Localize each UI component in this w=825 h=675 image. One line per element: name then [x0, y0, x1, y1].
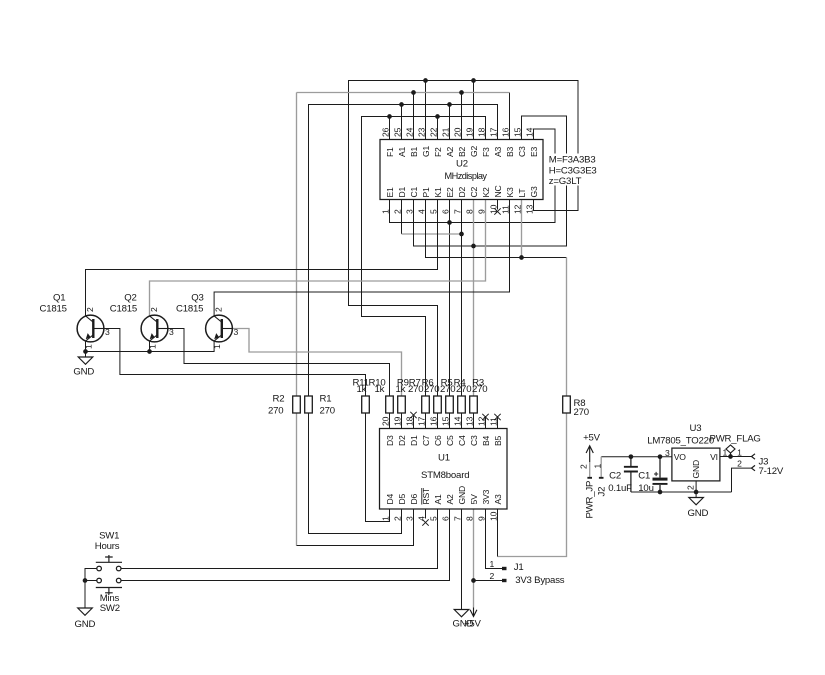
ground near Q1	[78, 357, 93, 364]
wire Q3 base to R9	[232, 329, 402, 397]
junction C2	[471, 244, 476, 249]
svg-text:R2: R2	[273, 394, 285, 405]
regulator U3 LM7805 body	[672, 448, 720, 481]
svg-text:RST: RST	[421, 487, 431, 505]
svg-text:10u: 10u	[638, 483, 653, 494]
svg-text:D6: D6	[409, 493, 419, 504]
resistor R11	[362, 396, 370, 413]
svg-text:11: 11	[500, 205, 510, 214]
svg-text:PWR_JP: PWR_JP	[585, 481, 596, 519]
wire Q2 base to R10	[167, 329, 390, 397]
svg-text:2: 2	[85, 307, 95, 312]
wire R6 bottom to U1 pin 16	[437, 413, 439, 429]
svg-text:1: 1	[380, 516, 390, 521]
svg-text:E1: E1	[385, 187, 395, 198]
junction E2	[447, 220, 452, 225]
svg-text:270: 270	[456, 384, 471, 395]
svg-text:17: 17	[416, 416, 426, 426]
wire net A from R1 bottom to U1 pin D5	[309, 413, 402, 534]
svg-text:7: 7	[452, 209, 462, 214]
transistor Q3	[206, 315, 233, 342]
wire J2 pin 1 to +5V rail	[600, 457, 602, 478]
svg-text:19: 19	[464, 127, 474, 137]
svg-text:LM7805_TO220: LM7805_TO220	[647, 436, 714, 447]
svg-text:C1: C1	[638, 471, 650, 482]
svg-text:D5: D5	[397, 493, 407, 504]
svg-text:2: 2	[685, 485, 695, 490]
IC U1 STM8board body	[380, 429, 508, 510]
node legend notes	[547, 154, 599, 186]
svg-text:20: 20	[452, 127, 462, 137]
svg-text:1: 1	[490, 559, 495, 569]
resistor R1	[305, 396, 313, 413]
wire F1 pin stub	[389, 117, 391, 140]
junction A2	[447, 102, 452, 107]
junction G1	[423, 78, 428, 83]
svg-text:3: 3	[234, 327, 239, 337]
wire +5V rail to U3 VO	[601, 456, 672, 458]
svg-text:F2: F2	[433, 147, 443, 157]
svg-text:9: 9	[476, 209, 486, 214]
wire U3 GND pin	[695, 481, 697, 498]
wire Q1 base to R11	[103, 329, 366, 397]
wire R8 bottom to U1 pin A3	[498, 413, 567, 557]
svg-text:C1815: C1815	[40, 304, 67, 315]
svg-text:NC: NC	[493, 185, 503, 197]
svg-text:5: 5	[428, 516, 438, 521]
svg-text:A1: A1	[397, 146, 407, 157]
svg-text:3V3 Bypass: 3V3 Bypass	[515, 575, 565, 586]
wire U1 3V3 to J1 pin 1	[486, 510, 503, 569]
svg-text:B4: B4	[481, 435, 491, 446]
wire SW2 common stub	[85, 580, 97, 582]
junction U3 GND	[694, 490, 699, 495]
wire Q2 emitter	[149, 341, 151, 352]
wire net B jog to U1 pin D6	[297, 510, 414, 546]
junction Q1 emitter	[83, 349, 88, 354]
ground under switches	[78, 608, 93, 615]
svg-text:2: 2	[392, 516, 402, 521]
capacitor C2	[624, 457, 638, 492]
svg-text:11: 11	[488, 417, 498, 426]
svg-text:A3: A3	[493, 494, 503, 505]
wire G1 pin stub	[425, 81, 427, 140]
wire GND stub Q1	[85, 352, 87, 358]
wire net B below R2	[296, 413, 298, 546]
svg-text:J2: J2	[596, 487, 607, 497]
svg-text:C6: C6	[433, 435, 443, 446]
wire net B top rail	[297, 92, 510, 94]
wire net A (A3 top rail, left vertical to R1)	[309, 105, 498, 397]
svg-text:10: 10	[488, 204, 498, 214]
power symbol +5V down arrow	[470, 608, 477, 617]
svg-text:1k: 1k	[396, 384, 406, 395]
svg-text:K2: K2	[481, 187, 491, 198]
svg-text:3: 3	[404, 209, 414, 214]
svg-text:K1: K1	[433, 187, 443, 198]
wire ground rail power section	[631, 491, 732, 493]
switch SW2 Mins	[96, 578, 122, 595]
svg-text:B5: B5	[493, 435, 503, 446]
wire F2 pin stub	[437, 117, 439, 140]
svg-text:GND: GND	[73, 367, 94, 378]
no-connect X on U1 pin 11	[494, 414, 500, 420]
svg-text:3: 3	[169, 327, 174, 337]
svg-text:P1: P1	[421, 187, 431, 198]
svg-text:A2: A2	[445, 146, 455, 157]
svg-text:U1: U1	[438, 453, 450, 464]
wire J3 pin 2 to ground rail	[732, 468, 752, 492]
svg-text:PWR_FLAG: PWR_FLAG	[710, 434, 761, 445]
svg-text:25: 25	[392, 127, 402, 137]
svg-text:14: 14	[524, 127, 534, 137]
wire R9 bottom to U1 pin 19	[401, 413, 403, 429]
svg-text:Q1: Q1	[53, 293, 65, 304]
wire R7 bottom to U1 pin 17	[425, 413, 427, 429]
svg-text:2: 2	[578, 464, 588, 469]
svg-text:D3: D3	[385, 435, 395, 446]
no-connect X on U1 pin 12	[482, 414, 488, 420]
svg-text:1: 1	[592, 464, 602, 469]
svg-text:18: 18	[476, 127, 486, 137]
svg-text:2: 2	[737, 459, 742, 469]
wire net B (B3 pin stub)	[509, 93, 511, 140]
svg-text:14: 14	[452, 416, 462, 426]
junction D2	[459, 232, 464, 237]
junction B1	[411, 90, 416, 95]
svg-text:1: 1	[83, 344, 93, 349]
svg-text:B3: B3	[505, 146, 515, 157]
svg-text:C7: C7	[421, 435, 431, 446]
wire net K1 to Q1 collector	[86, 200, 438, 317]
junction Q2 emitter	[147, 349, 152, 354]
svg-text:GND: GND	[688, 508, 709, 519]
wire R5 bottom to U1 pin 15	[449, 413, 451, 429]
svg-text:8: 8	[464, 516, 474, 521]
svg-text:MHzdisplay: MHzdisplay	[445, 171, 488, 181]
IC U2 MHzdisplay body	[380, 140, 543, 200]
transistor Q2	[141, 315, 168, 342]
svg-text:3: 3	[105, 327, 110, 337]
svg-text:D4: D4	[385, 493, 395, 504]
svg-text:U3: U3	[690, 423, 702, 434]
wire J2 pin 2 to +5V	[589, 462, 591, 478]
svg-text:22: 22	[428, 127, 438, 137]
svg-text:+5V: +5V	[464, 619, 482, 630]
svg-text:VI: VI	[710, 452, 718, 462]
junction A1	[399, 102, 404, 107]
resistor R9	[398, 396, 406, 413]
svg-text:SW1: SW1	[99, 531, 119, 542]
junction SW commons	[83, 578, 88, 583]
junction C1 bottom	[658, 490, 663, 495]
svg-text:20: 20	[380, 416, 390, 426]
svg-text:16: 16	[500, 127, 510, 137]
svg-text:GND: GND	[457, 486, 467, 505]
svg-text:G3: G3	[529, 186, 539, 197]
svg-text:J1: J1	[514, 562, 524, 573]
svg-text:Q2: Q2	[124, 293, 136, 304]
junction LT	[519, 255, 524, 260]
resistor R3	[470, 396, 478, 413]
svg-text:3: 3	[404, 516, 414, 521]
svg-text:5V: 5V	[469, 494, 479, 505]
svg-text:1k: 1k	[357, 384, 367, 395]
no-connect X on U1 pin 4 RST	[422, 519, 428, 525]
svg-text:4: 4	[416, 516, 426, 521]
svg-text:C2: C2	[609, 471, 621, 482]
svg-text:GND: GND	[691, 460, 701, 479]
switch SW1 Hours	[96, 555, 122, 571]
svg-text:6: 6	[440, 516, 450, 521]
svg-text:E3: E3	[529, 146, 539, 157]
svg-text:270: 270	[472, 384, 487, 395]
wire 5V to J1 pin 2	[474, 580, 503, 582]
ground U3	[689, 498, 704, 505]
svg-text:26: 26	[380, 127, 390, 137]
svg-text:12: 12	[476, 416, 486, 426]
wire net C (C1 staircase to C3)	[414, 116, 567, 246]
svg-text:VO: VO	[674, 452, 687, 462]
svg-text:5: 5	[428, 209, 438, 214]
wire net P (P1 staircase)	[426, 200, 567, 258]
svg-text:4: 4	[416, 209, 426, 214]
wire emitter ground rail	[86, 341, 215, 352]
svg-text:1: 1	[212, 344, 222, 349]
svg-text:C5: C5	[445, 435, 455, 446]
svg-text:U2: U2	[456, 159, 468, 170]
wire B2 pin stub	[461, 93, 463, 140]
svg-text:10: 10	[488, 511, 498, 521]
svg-text:GND: GND	[75, 619, 96, 630]
wire G2 pin stub	[473, 81, 475, 140]
svg-text:19: 19	[392, 416, 402, 426]
svg-text:R1: R1	[320, 394, 332, 405]
wire NC pin stub	[497, 200, 499, 210]
resistor R2	[293, 396, 301, 413]
wire net B left vertical to R2	[296, 93, 298, 397]
connector J1	[502, 567, 507, 570]
svg-text:24: 24	[404, 127, 414, 137]
svg-text:M=F3A3B3: M=F3A3B3	[549, 155, 596, 166]
junction G2	[471, 78, 476, 83]
wire U1 5V pin descent	[473, 510, 475, 608]
svg-text:K3: K3	[505, 187, 515, 198]
resistor R8	[563, 396, 571, 413]
junction F2	[435, 114, 440, 119]
svg-text:270: 270	[424, 384, 439, 395]
svg-text:12: 12	[512, 204, 522, 214]
wire net P down to R8	[566, 258, 568, 397]
wire net C column C2/R3	[473, 200, 475, 397]
junction PWR_FLAG	[728, 454, 733, 459]
wire D1 descent	[401, 200, 403, 235]
wire R3 bottom to U1 pin 13	[473, 413, 475, 429]
wire U1 A2 to SW2	[121, 510, 450, 581]
svg-text:D1: D1	[397, 186, 407, 197]
svg-text:16: 16	[428, 416, 438, 426]
wire net K3 to Q3 collector	[214, 200, 509, 317]
svg-text:E2: E2	[445, 187, 455, 198]
svg-text:3V3: 3V3	[481, 489, 491, 504]
svg-text:D1: D1	[409, 435, 419, 446]
svg-text:0.1uF: 0.1uF	[608, 483, 632, 494]
svg-text:G2: G2	[469, 146, 479, 157]
svg-text:STM8board: STM8board	[421, 470, 469, 481]
svg-text:SW2: SW2	[100, 603, 120, 614]
junction C2 top	[629, 454, 634, 459]
resistor R4	[458, 396, 466, 413]
wire U3 VI to J3 pin 1	[720, 456, 752, 458]
wire U1 GND pin descent	[461, 510, 463, 610]
svg-text:270: 270	[574, 407, 589, 418]
no-connect X on U2 pin 10	[494, 208, 500, 214]
svg-text:2: 2	[490, 571, 495, 581]
wire B1 pin stub	[413, 93, 415, 140]
resistor R6	[434, 396, 442, 413]
connector J3	[752, 454, 756, 459]
wire U1 pin 12 stub	[485, 416, 487, 429]
svg-text:C1815: C1815	[176, 304, 203, 315]
wire R4 bottom to U1 pin 14	[461, 413, 463, 429]
junction C1 top	[658, 454, 663, 459]
svg-text:C2: C2	[469, 186, 479, 197]
svg-text:A3: A3	[493, 146, 503, 157]
svg-text:C4: C4	[457, 435, 467, 446]
no-connect X on U1 pin 18	[410, 412, 416, 418]
wire net F (F3 top rail, left vertical to R7)	[362, 117, 486, 397]
wire net K2 to Q2 collector	[150, 200, 486, 317]
wire A3 pin descent	[497, 510, 499, 557]
svg-text:13: 13	[464, 416, 474, 426]
svg-text:B1: B1	[409, 146, 419, 157]
wire U1 pin 18 stub	[413, 416, 415, 429]
wire U1 A1 to SW1	[121, 510, 438, 569]
svg-text:18: 18	[404, 416, 414, 426]
capacitor C1 (polarized)	[653, 457, 668, 492]
wire A2 pin stub	[449, 105, 451, 140]
svg-text:1: 1	[380, 209, 390, 214]
svg-text:G1: G1	[421, 146, 431, 157]
wire LT pin descent	[521, 200, 523, 258]
svg-text:8: 8	[464, 209, 474, 214]
wire R11 bottom to U1 pin D4	[366, 413, 390, 522]
svg-text:9: 9	[476, 516, 486, 521]
svg-text:2: 2	[149, 307, 159, 312]
svg-text:1k: 1k	[375, 384, 385, 395]
svg-text:2: 2	[392, 209, 402, 214]
ground under U1	[454, 610, 469, 617]
resistor R7	[422, 396, 430, 413]
junction B2	[459, 90, 464, 95]
svg-text:C3: C3	[517, 146, 527, 157]
svg-text:LT: LT	[517, 188, 527, 198]
resistor R10	[386, 396, 394, 413]
wire A1 pin stub	[401, 105, 403, 140]
svg-text:D2: D2	[457, 186, 467, 197]
svg-text:D2: D2	[397, 435, 407, 446]
svg-text:15: 15	[512, 127, 522, 137]
svg-text:C3: C3	[469, 435, 479, 446]
wire R10 bottom to U1 pin 20	[389, 413, 391, 429]
svg-text:270: 270	[268, 406, 283, 417]
svg-text:+5V: +5V	[583, 433, 601, 444]
wire net E column E2/R5	[449, 200, 451, 397]
svg-text:z=G3LT: z=G3LT	[549, 176, 582, 187]
svg-text:6: 6	[440, 209, 450, 214]
wire U1 pin 4 stub	[425, 510, 427, 519]
svg-text:2: 2	[213, 307, 223, 312]
wire U1 pin 11 stub	[497, 416, 499, 429]
svg-text:F1: F1	[385, 147, 395, 157]
svg-text:21: 21	[440, 127, 450, 137]
svg-text:A2: A2	[445, 494, 455, 505]
svg-text:15: 15	[440, 416, 450, 426]
svg-text:B2: B2	[457, 146, 467, 157]
svg-text:23: 23	[416, 127, 426, 137]
RST overline	[421, 488, 423, 505]
transistor Q1	[77, 315, 104, 342]
svg-text:F3: F3	[481, 147, 491, 157]
svg-text:C1: C1	[409, 186, 419, 197]
svg-text:270: 270	[320, 406, 335, 417]
wire net E (E1 staircase to E3)	[390, 129, 556, 223]
svg-text:1: 1	[737, 448, 742, 458]
wire net G (G3 to G-rail, down left side, to R6)	[349, 81, 579, 397]
power symbol +5V up arrow	[586, 446, 593, 462]
svg-text:A1: A1	[433, 494, 443, 505]
wire switch commons to ground	[85, 569, 97, 609]
svg-text:C1815: C1815	[110, 304, 137, 315]
power symbol PWR_FLAG	[726, 445, 735, 457]
svg-text:Hours: Hours	[95, 541, 120, 552]
junction F1	[387, 114, 392, 119]
svg-text:7: 7	[452, 516, 462, 521]
svg-text:1: 1	[147, 344, 157, 349]
svg-text:17: 17	[488, 127, 498, 137]
resistor R5	[446, 396, 454, 413]
wire net D staircase	[402, 233, 462, 235]
svg-text:Q3: Q3	[191, 293, 203, 304]
junction 5V / J1-2	[471, 578, 476, 583]
wire net D column D2/R4	[461, 200, 463, 397]
svg-text:H=C3G3E3: H=C3G3E3	[549, 165, 597, 176]
svg-text:7-12V: 7-12V	[759, 466, 784, 477]
svg-text:13: 13	[524, 204, 534, 214]
